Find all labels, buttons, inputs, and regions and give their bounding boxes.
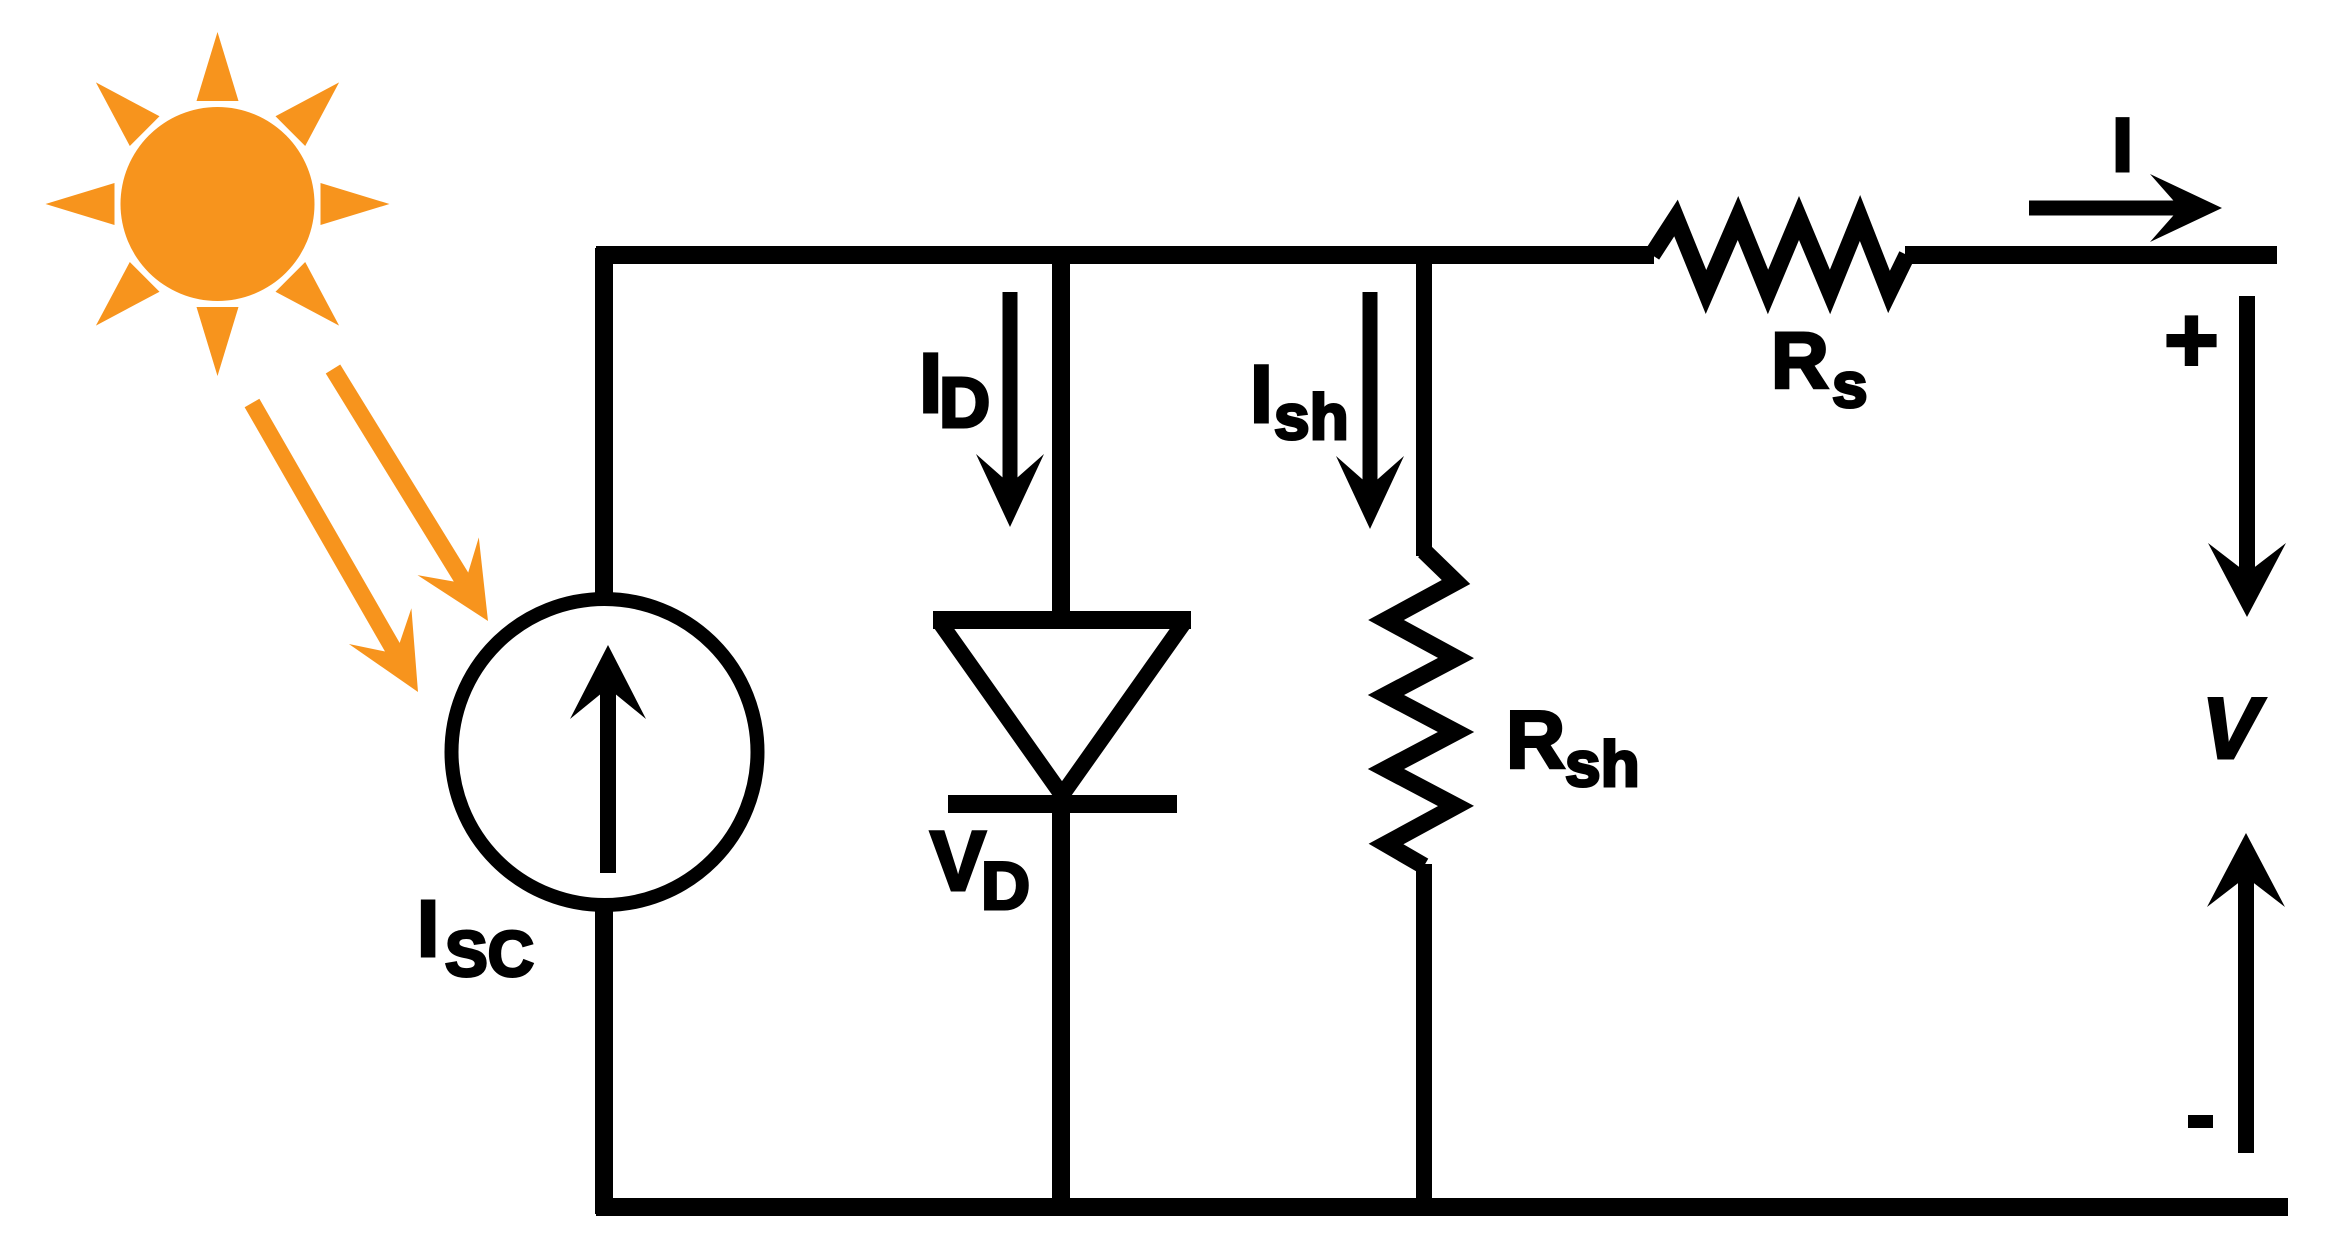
svg-text:V: V [2202, 681, 2266, 777]
voltage arrow up [2238, 872, 2254, 1153]
svg-text:s: s [1832, 349, 1868, 421]
svg-text:SC: SC [445, 918, 534, 990]
wire top [596, 246, 1654, 264]
wire left vertical top [595, 248, 613, 605]
wire bottom [596, 1198, 2288, 1216]
wire diode branch top [1052, 246, 1070, 622]
svg-text:+: + [2164, 287, 2219, 392]
svg-text:D: D [981, 848, 1030, 924]
wire shunt branch bottom [1416, 864, 1432, 1214]
current arrow I output [2029, 201, 2186, 216]
svg-text:sh: sh [1565, 728, 1640, 800]
label minus [2188, 1115, 2213, 1128]
current arrow ID [1003, 292, 1018, 490]
voltage arrow down [2239, 296, 2255, 578]
svg-text:R: R [1506, 695, 1565, 786]
diode D [933, 611, 1191, 629]
irradiance arrow 1 [252, 403, 418, 692]
resistor Rsh [1386, 551, 1456, 866]
wire shunt branch top [1416, 246, 1432, 556]
svg-text:sh: sh [1274, 381, 1349, 453]
resistor Rs [1652, 218, 1907, 292]
svg-text:I: I [2112, 103, 2133, 188]
current arrow Ish [1363, 292, 1378, 492]
svg-text:D: D [939, 364, 990, 443]
svg-text:I: I [1250, 349, 1273, 440]
svg-text:R: R [1771, 316, 1829, 405]
sun [46, 32, 390, 376]
svg-text:V: V [930, 814, 986, 908]
irradiance arrow 2 [333, 369, 488, 621]
wire left vertical bottom [595, 900, 613, 1214]
current source Isc [452, 599, 758, 905]
svg-text:I: I [417, 884, 439, 973]
wire top right [1905, 246, 2277, 264]
wire diode branch bottom [1052, 800, 1070, 1214]
